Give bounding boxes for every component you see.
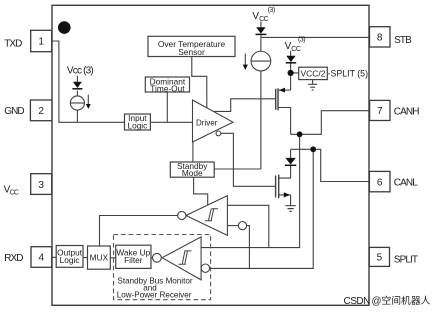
- pin 5 box: [369, 247, 389, 266]
- wire CANL node: [291, 149, 370, 181]
- Output Logic box: [56, 246, 83, 268]
- transistor M2 (CANL driver) gate bar: [275, 176, 277, 198]
- svg-text:CSDN: CSDN: [344, 296, 371, 307]
- svg-text:SPLIT: SPLIT: [394, 254, 418, 265]
- svg-text:Vcc (3): Vcc (3): [67, 65, 94, 76]
- transistor M1 channel bar: [277, 88, 279, 110]
- wire driver top output to M1 gate: [213, 99, 275, 112]
- wire CANH node down to receiver inputs: [201, 134, 300, 247]
- IC outline: [52, 5, 369, 305]
- wire M1 source down to CANH line: [278, 108, 291, 135]
- diode D2 (Vcc diode at VCC/2 node): [286, 56, 295, 62]
- svg-text:Time-Out: Time-Out: [150, 84, 185, 94]
- svg-text:TXD: TXD: [4, 38, 22, 49]
- pin 8 box: [370, 27, 391, 47]
- wire receiver output to MUX: [100, 216, 178, 246]
- svg-text:RXD: RXD: [4, 253, 23, 264]
- wire Vcc pull-up chain at pin 1: [76, 76, 78, 123]
- junction node C (CANL node): [310, 146, 316, 152]
- wire Standby Mode to receiver enable: [194, 177, 208, 205]
- svg-text:CANH: CANH: [394, 106, 419, 117]
- VCC/2 box: [299, 67, 328, 79]
- current source I2 (STB pull-up): [251, 51, 271, 71]
- svg-text:(3): (3): [268, 7, 275, 14]
- svg-text:4: 4: [39, 253, 45, 264]
- diode D1 (top Vcc diode at STB pull-up): [256, 27, 265, 33]
- svg-text:CANL: CANL: [394, 177, 418, 188]
- ground symbol below M2: [285, 206, 295, 212]
- wire CANL diode chain to M2 drain: [279, 149, 291, 178]
- Standby Mode box: [170, 162, 214, 177]
- wire RXD row: pin4-Output Logic-MUX-Wake Up Filter: [52, 256, 153, 259]
- svg-text:STB: STB: [394, 35, 412, 46]
- current source I1 (pin 1 pull-up): [70, 96, 84, 110]
- transistor M1 (CANH driver) gate bar: [275, 89, 277, 110]
- pin 1 box: [31, 30, 52, 51]
- pin 7 box: [370, 100, 390, 120]
- svg-text:5: 5: [377, 253, 383, 264]
- Input Logic box: [125, 114, 151, 130]
- diode D4 (CANL series diode): [285, 158, 295, 165]
- svg-text:Sensor: Sensor: [178, 47, 205, 57]
- svg-text:Driver: Driver: [196, 118, 218, 127]
- low-power receiver U3 triangle: [162, 237, 201, 280]
- svg-text:7: 7: [377, 106, 383, 117]
- wire Over Temperature Sensor to Driver top edge: [192, 57, 207, 109]
- svg-text:-SPLIT (5): -SPLIT (5): [328, 68, 368, 78]
- pin 3 box: [31, 174, 52, 195]
- wire node A to VCC/2 block: [291, 72, 299, 74]
- wire STB pin 8: [261, 36, 370, 38]
- svg-text:1: 1: [38, 37, 44, 48]
- junction node A (VCC/2 node): [288, 70, 294, 76]
- wire driver inverted output to M2 gate: [221, 133, 276, 186]
- junction node B (CANH node): [297, 131, 303, 137]
- transistor M1 body arrow: [279, 88, 285, 93]
- svg-text:2: 2: [38, 106, 44, 117]
- svg-text:3: 3: [38, 180, 44, 191]
- svg-text:Mode: Mode: [182, 168, 203, 178]
- low-power receiver U3 hysteresis symbol: [179, 251, 192, 264]
- wire Vcc diode to node A: [290, 51, 292, 90]
- wire VCC/2 to ground: [312, 80, 314, 84]
- svg-text:8: 8: [377, 33, 383, 44]
- svg-text:GND: GND: [4, 106, 24, 117]
- wire CANH to pin 7: [291, 111, 370, 135]
- diode D3 (Vcc diode at pin 1 pull-up): [73, 82, 82, 88]
- wire STB chain: label to diode to current source to Standby line: [260, 22, 262, 170]
- Wake Up Filter box: [116, 245, 151, 268]
- wire CANL node down to low-power receiver inputs: [210, 149, 314, 268]
- dashed box: Standby Bus Monitor and Low-Power Receiver: [114, 235, 211, 300]
- low-power receiver U3 inverting input bubble: [201, 264, 209, 272]
- wire Dominant Time-Out down to TXD line: [166, 92, 168, 122]
- wire M2 source to ground: [279, 195, 291, 206]
- wire receiver inverting input stub: [227, 225, 238, 227]
- transistor M2 channel bar: [278, 175, 280, 199]
- driver output bubble: [216, 131, 221, 136]
- svg-text:(3): (3): [298, 37, 305, 44]
- MUX box: [88, 246, 111, 269]
- svg-text:Logic: Logic: [127, 120, 147, 130]
- wire Standby Mode right to bias line: [214, 168, 261, 170]
- svg-text:VCC/2: VCC/2: [300, 69, 325, 79]
- svg-text:MUX: MUX: [90, 253, 109, 263]
- wire TXD pin1 to Input Logic: [52, 41, 125, 122]
- ground symbol below VCC/2: [308, 84, 317, 90]
- current source I1 direction arrow: [87, 95, 89, 105]
- Over Temperature Sensor box: [148, 36, 235, 56]
- receiver U2 inverting input bubble: [238, 222, 246, 230]
- current source I2 direction arrow: [244, 54, 246, 66]
- transistor M2 source arrow: [284, 192, 290, 197]
- wire Driver bottom corner to Standby Mode top: [192, 142, 194, 162]
- svg-text:Logic: Logic: [60, 255, 80, 265]
- wire M1 drain: [278, 89, 291, 91]
- svg-text:Low-Power Receiver: Low-Power Receiver: [117, 291, 192, 300]
- svg-text:@空间机器人: @空间机器人: [372, 294, 431, 307]
- pin 1 marker dot: [58, 21, 71, 34]
- pin 6 box: [369, 171, 390, 191]
- receiver U2 hysteresis symbol: [205, 209, 218, 221]
- driver U1 triangle: [193, 100, 234, 142]
- pin 4 box: [31, 247, 52, 268]
- pin 2 box: [30, 100, 52, 121]
- svg-text:Filter: Filter: [124, 255, 143, 265]
- low-power receiver U3 output bubble: [153, 253, 162, 262]
- Dominant Time-Out box: [145, 77, 189, 92]
- svg-text:6: 6: [377, 177, 383, 188]
- wire Input Logic to Driver: [150, 121, 192, 123]
- receiver U2 triangle (normal-mode): [186, 196, 228, 236]
- receiver U2 output bubble: [178, 211, 186, 219]
